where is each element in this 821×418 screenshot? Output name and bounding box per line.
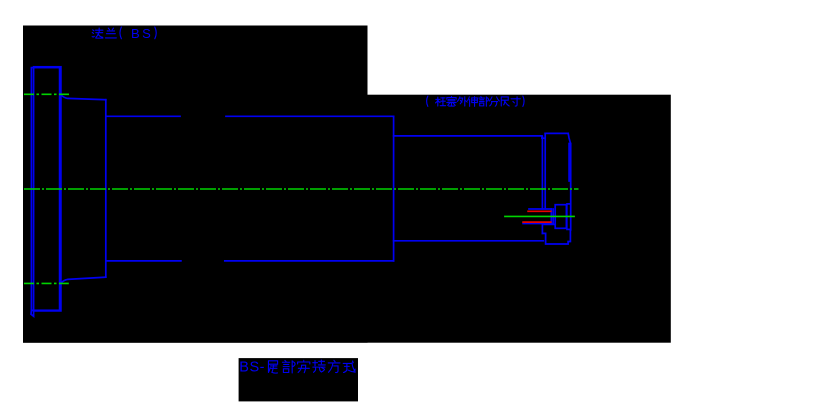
stub lower-left ledge [544,223,555,225]
upper bolt center line [24,93,69,95]
hole end face 2 [552,209,554,224]
cap top edge [545,132,568,134]
cylinder top line seg1 [107,115,180,117]
rod top line [394,135,542,137]
stub rect [555,205,567,229]
thread line upper [528,210,551,212]
taper end face [105,100,107,278]
hole end face [550,209,552,224]
thread line lower [523,221,551,223]
black canvas wide rect [23,95,671,343]
title block black box [239,358,358,401]
label BS-尾部安装方式 [268,360,355,373]
flange inner rect [34,67,61,311]
svg-text:BS-: BS- [239,360,265,376]
taper bottom line [61,277,106,283]
cylinder bottom line seg1 [107,260,181,262]
rod bottom line [394,240,544,242]
cap inner chamfer line [568,144,570,182]
hole top line [529,208,551,210]
cap stub joiner bottom [567,228,571,230]
flange bottom-left tab [31,310,34,316]
stub center line [504,215,575,217]
hole bottom line [523,223,553,225]
rod end face upper [541,137,543,209]
main center axis [24,188,579,190]
flange outer rect [31,68,59,311]
label （柱塞外伸部分尺寸） [427,96,525,106]
lower bolt center line [24,282,69,284]
stub inner line [565,206,567,227]
cylinder top line seg2 [226,115,394,117]
cap left edge upper [544,133,546,209]
cylinder right face [393,116,395,261]
black canvas upper-left rect [23,26,368,343]
rod end face lower [541,224,543,234]
cap right edge [570,144,572,230]
cap top-right chamfer [568,133,570,143]
taper top line [61,95,106,100]
cap bottom staircase [542,230,570,244]
cap stub joiner top [567,203,571,205]
label 法兰（BS） [92,27,156,39]
svg-text:BS: BS [131,26,153,41]
cylinder bottom line seg2 [225,260,394,262]
rod top step [542,136,545,138]
